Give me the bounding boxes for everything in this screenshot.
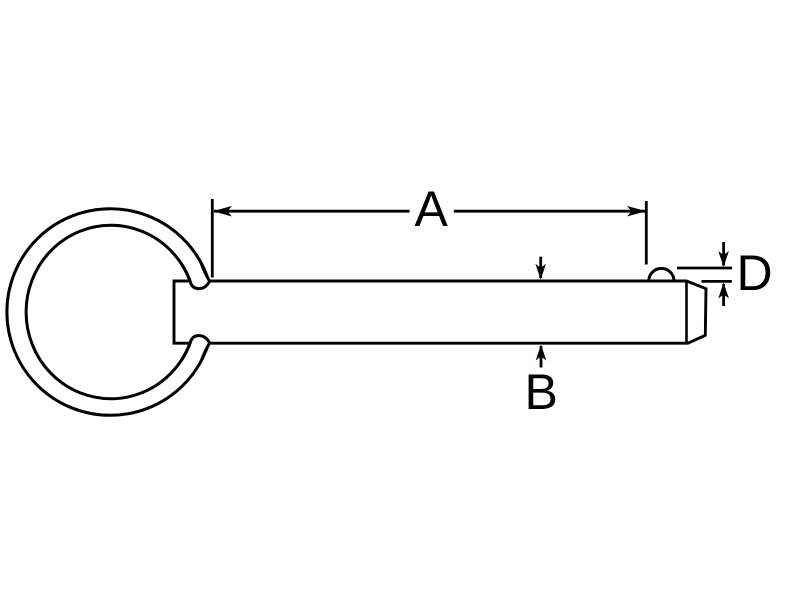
svg-text:A: A [415, 181, 449, 237]
svg-text:B: B [525, 364, 558, 420]
svg-text:D: D [737, 245, 773, 301]
